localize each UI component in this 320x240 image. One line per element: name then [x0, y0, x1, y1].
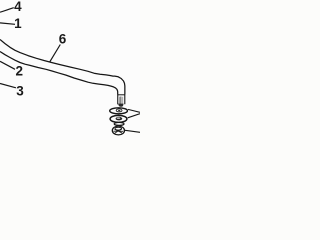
svg-text:6: 6 — [59, 31, 67, 46]
svg-text:4: 4 — [14, 0, 22, 14]
leader washer2 — [128, 114, 140, 118]
svg-text:1: 1 — [14, 16, 22, 31]
washer 3 (lock washer) outer — [112, 126, 124, 135]
svg-text:3: 3 — [16, 83, 24, 98]
ferrule walls — [118, 95, 125, 105]
washer 2 hole highlight — [117, 117, 121, 118]
leader line 1 — [0, 23, 15, 24]
washer 3 inner ring — [115, 127, 122, 130]
leader washer1 — [128, 109, 140, 112]
washer 2 hole dark — [116, 117, 123, 121]
leader line 2 — [0, 61, 15, 69]
washer 1 hole — [118, 110, 120, 111]
bushing hub under washer 2 — [114, 123, 124, 126]
link rod tube item 6 : top outline — [0, 40, 125, 95]
ferrule interior shading — [120, 97, 123, 105]
washer 1 outer — [110, 108, 128, 114]
link rod tube item 6 : bottom outline — [0, 52, 118, 95]
washer 2 outer — [110, 115, 127, 122]
ferrule joint line — [118, 94, 125, 96]
ferrule dark rounded bottom — [118, 104, 123, 107]
washer 1 inner ring — [116, 109, 122, 112]
leader line 4 — [0, 8, 14, 13]
leader washer3 — [124, 130, 140, 132]
svg-text:2: 2 — [16, 63, 24, 78]
leader line 3 — [0, 84, 16, 88]
leader line 6 — [50, 45, 61, 62]
washer 3 serration X marks — [114, 129, 124, 134]
